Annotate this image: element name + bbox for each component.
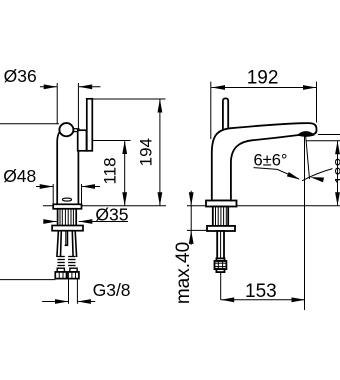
svg-text:194: 194	[137, 138, 156, 166]
svg-text:Ø35: Ø35	[95, 204, 128, 224]
svg-text:Ø36: Ø36	[4, 66, 37, 86]
svg-text:192: 192	[247, 67, 279, 88]
svg-text:max.40: max.40	[173, 242, 194, 304]
svg-text:188: 188	[333, 158, 340, 185]
svg-text:6±6°: 6±6°	[254, 152, 288, 170]
svg-text:Ø48: Ø48	[3, 166, 36, 186]
svg-text:153: 153	[245, 281, 277, 302]
svg-text:G3/8: G3/8	[93, 280, 131, 300]
svg-text:118: 118	[100, 157, 119, 184]
